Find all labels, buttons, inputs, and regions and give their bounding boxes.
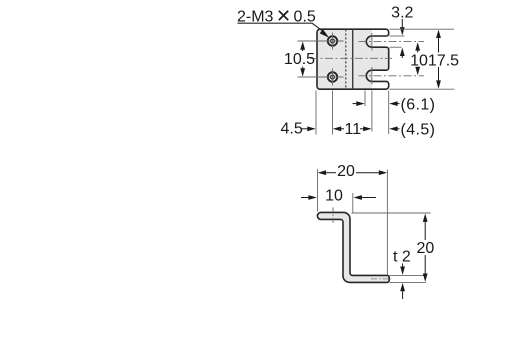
svg-text:17.5: 17.5 xyxy=(428,52,459,69)
slot 1 centerline xyxy=(359,41,425,43)
slot end vertical centerline xyxy=(371,33,373,85)
bend line solid xyxy=(352,29,354,89)
svg-text:10: 10 xyxy=(410,52,428,69)
dim 10.5 xyxy=(300,41,305,49)
svg-text:4.5: 4.5 xyxy=(281,121,303,138)
svg-text:10.5: 10.5 xyxy=(284,51,315,68)
hole 2 centerline cross xyxy=(298,69,344,86)
ext line plate bottom right xyxy=(390,88,455,90)
svg-text:10: 10 xyxy=(325,188,343,205)
plate outline (top view, fork shape with two open slots) xyxy=(317,29,389,89)
plate gray fill middle prong xyxy=(370,47,389,70)
leader line for 2-M3x0.5 xyxy=(238,23,326,33)
dim 10 (slots) xyxy=(415,42,420,50)
ext lines side view xyxy=(318,169,431,282)
svg-text:11: 11 xyxy=(344,121,361,138)
slot 2 centerline xyxy=(359,75,425,77)
ext line slot1 bottom xyxy=(390,46,402,48)
svg-text:20: 20 xyxy=(337,163,355,180)
hole 1 centerline cross xyxy=(298,33,344,50)
bracket profile (Z shape) xyxy=(317,212,389,282)
svg-text:t 2: t 2 xyxy=(393,249,411,266)
hole 1 (top M3) xyxy=(328,36,337,45)
ext line slot1 top xyxy=(390,35,405,37)
ext line plate top right xyxy=(390,28,455,30)
bend line dashed xyxy=(345,29,347,89)
dim 20 right xyxy=(423,214,428,222)
svg-text:(4.5): (4.5) xyxy=(401,122,436,139)
dim (4.5) xyxy=(389,126,397,131)
plate gray fill body xyxy=(317,29,372,89)
svg-text:(6.1): (6.1) xyxy=(401,96,436,113)
ext lines below plate xyxy=(316,91,389,135)
svg-text:20: 20 xyxy=(417,240,435,257)
slot centerline in bottom flange xyxy=(371,278,392,280)
dim 11 xyxy=(333,126,341,131)
plate middle centerline xyxy=(310,57,392,59)
dim 3.2 leader and arrows xyxy=(401,19,403,29)
dim 17.5 xyxy=(436,30,441,38)
hole 2 (bottom M3) xyxy=(328,72,337,81)
hole centerline in top flange xyxy=(332,207,334,223)
dim 20 top xyxy=(318,170,326,175)
dim (6.1) xyxy=(353,103,358,105)
